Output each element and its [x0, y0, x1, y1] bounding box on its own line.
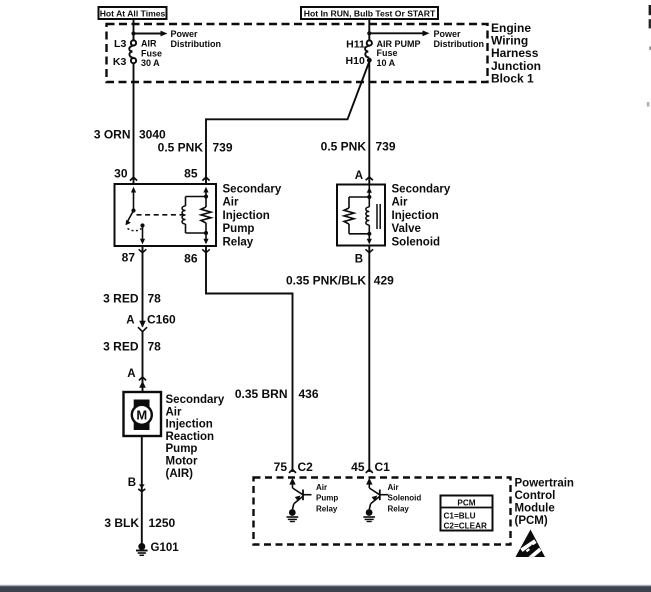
PCM dashed box	[254, 478, 511, 545]
wire branch diagonal from fuse H10 to relay pin 85	[206, 62, 369, 185]
svg-text:436: 436	[299, 387, 319, 401]
PCM legend box	[441, 496, 493, 531]
solenoid box Secondary Air Injection Valve Solenoid	[337, 185, 385, 246]
svg-text:Injection: Injection	[166, 419, 213, 431]
bottom bar	[0, 585, 651, 587]
svg-text:0.35 PNK/BLK: 0.35 PNK/BLK	[286, 274, 366, 288]
svg-text:Motor: Motor	[166, 456, 198, 468]
svg-text:M: M	[136, 408, 147, 423]
svg-text:C1=BLU: C1=BLU	[444, 512, 476, 521]
motor Secondary Air Injection Reaction Pump Motor (AIR)	[124, 392, 162, 436]
svg-text:45: 45	[351, 460, 365, 474]
node junction dot left	[131, 31, 135, 35]
label 3 RED 78 lower	[103, 340, 161, 354]
fuse AIR PUMP Fuse 10 A	[346, 38, 421, 68]
svg-text:1250: 1250	[149, 516, 176, 530]
svg-text:30 A: 30 A	[141, 58, 160, 68]
solenoid pin labels	[355, 170, 363, 265]
ground G101	[136, 542, 179, 555]
right edge artifacts	[649, 5, 651, 15]
svg-text:739: 739	[213, 140, 233, 154]
wire motor B to ground	[141, 436, 143, 544]
svg-text:Solenoid: Solenoid	[392, 237, 441, 249]
svg-text:Air: Air	[316, 483, 327, 492]
svg-text:Distribution: Distribution	[434, 39, 485, 49]
svg-text:Power: Power	[171, 29, 199, 39]
svg-text:Injection: Injection	[392, 210, 439, 222]
svg-text:Control: Control	[515, 490, 556, 502]
svg-text:Air: Air	[166, 406, 183, 418]
svg-text:Secondary: Secondary	[166, 394, 225, 406]
svg-text:B: B	[355, 253, 363, 265]
label 3 ORN 3040	[94, 128, 166, 142]
svg-text:Fuse: Fuse	[377, 48, 398, 58]
fuse AIR Fuse 30 A	[113, 38, 162, 68]
connector chevron solenoid B	[366, 249, 374, 252]
svg-text:87: 87	[122, 251, 136, 265]
label 0.35 BRN 436	[235, 387, 319, 401]
svg-text:C2=CLEAR: C2=CLEAR	[444, 522, 488, 531]
ESD warning triangle	[516, 530, 546, 558]
power distribution arrow right	[369, 29, 484, 49]
svg-text:(AIR): (AIR)	[166, 468, 194, 480]
wire fuse K3 to relay pin 30	[133, 63, 135, 184]
svg-text:Hot In RUN, Bulb Test Or START: Hot In RUN, Bulb Test Or START	[304, 8, 436, 18]
svg-text:0.35 BRN: 0.35 BRN	[235, 387, 288, 401]
svg-text:B: B	[128, 477, 136, 489]
svg-text:C160: C160	[147, 313, 176, 327]
connector chevron pin 86	[202, 249, 210, 252]
label 0.5 PNK 739 right	[321, 139, 396, 153]
wire C160 to motor	[142, 332, 144, 392]
svg-text:78: 78	[148, 292, 162, 306]
label 3 RED 78 upper	[103, 292, 161, 306]
svg-text:Pump: Pump	[223, 223, 255, 235]
wire from Hot In RUN to fuse	[368, 19, 370, 40]
relay coil control dashed line	[137, 214, 185, 216]
label box Hot At All Times	[99, 7, 167, 19]
relay pin labels	[114, 167, 198, 266]
label box Hot In RUN, Bulb Test Or START	[301, 7, 438, 19]
svg-text:3 BLK: 3 BLK	[104, 516, 139, 530]
svg-text:Air: Air	[388, 483, 399, 492]
wire from Hot At All Times to fuse	[133, 19, 135, 40]
transistor Air Solenoid Relay driver	[363, 478, 421, 522]
wire relay 86 to PCM 75 C2	[206, 246, 293, 472]
transistor Air Pump Relay driver	[287, 478, 339, 522]
motor name text	[166, 394, 225, 480]
wire fuse H10 down to solenoid pin A	[368, 61, 370, 185]
motor pin B	[128, 477, 146, 492]
svg-text:L3: L3	[114, 38, 126, 50]
connector chevron pin 30	[130, 177, 137, 180]
relay box Secondary Air Injection Pump Relay	[115, 184, 217, 246]
PCM connector labels 75 C2 45 C1	[274, 460, 391, 474]
label 0.35 PNK/BLK 429	[286, 274, 394, 288]
svg-text:C1: C1	[375, 460, 391, 474]
connector chevron solenoid A	[366, 177, 373, 180]
label 0.5 PNK 739 left	[158, 140, 233, 154]
svg-text:75: 75	[274, 460, 288, 474]
svg-text:Powertrain: Powertrain	[515, 478, 574, 490]
svg-text:Secondary: Secondary	[223, 183, 282, 195]
connector chevron pin 85	[202, 177, 209, 180]
svg-text:A: A	[127, 368, 135, 380]
relay coil	[182, 187, 211, 245]
relay name text	[223, 183, 282, 248]
svg-text:G101: G101	[151, 542, 180, 554]
svg-text:0.5 PNK: 0.5 PNK	[321, 139, 367, 153]
connector chevron pin 87	[139, 249, 147, 252]
svg-text:H11: H11	[346, 38, 365, 50]
svg-text:Pump: Pump	[316, 494, 338, 503]
motor pin A	[127, 368, 146, 388]
svg-text:(PCM): (PCM)	[515, 515, 548, 527]
junction block dashed box	[107, 24, 488, 82]
svg-text:Relay: Relay	[223, 237, 254, 249]
svg-text:Injection: Injection	[223, 210, 270, 222]
solenoid internals	[344, 185, 380, 245]
wire solenoid B down to PCM 45 C1	[368, 246, 370, 473]
svg-text:Solenoid: Solenoid	[388, 494, 422, 503]
svg-text:30: 30	[114, 167, 128, 181]
svg-text:Reaction: Reaction	[166, 431, 215, 443]
svg-text:0.5 PNK: 0.5 PNK	[158, 140, 204, 154]
junction block label	[491, 21, 541, 86]
label 3 BLK 1250	[104, 516, 175, 530]
connector C160	[126, 313, 176, 332]
node junction dot right	[367, 31, 371, 35]
svg-text:PCM: PCM	[457, 498, 475, 507]
svg-text:Distribution: Distribution	[171, 39, 222, 49]
svg-text:Module: Module	[515, 503, 555, 515]
svg-text:86: 86	[184, 252, 198, 266]
svg-text:A: A	[126, 315, 134, 327]
PCM name text	[515, 478, 574, 528]
solenoid name text	[392, 183, 451, 248]
svg-text:AIR: AIR	[141, 39, 157, 49]
power distribution arrow left	[134, 29, 222, 49]
svg-text:Air: Air	[223, 197, 240, 209]
wire relay 87 down to motor	[142, 246, 144, 327]
svg-text:78: 78	[148, 340, 162, 354]
svg-text:Relay: Relay	[388, 504, 410, 513]
svg-text:10 A: 10 A	[377, 58, 396, 68]
svg-text:85: 85	[184, 167, 198, 181]
svg-text:739: 739	[376, 139, 396, 153]
svg-text:Pump: Pump	[166, 443, 198, 455]
svg-text:Valve: Valve	[392, 223, 421, 235]
relay switch	[126, 187, 146, 245]
svg-text:Power: Power	[434, 29, 462, 39]
svg-text:429: 429	[374, 274, 394, 288]
svg-text:Fuse: Fuse	[141, 48, 162, 58]
svg-text:Relay: Relay	[316, 504, 338, 513]
svg-text:3 ORN: 3 ORN	[94, 128, 131, 142]
svg-text:A: A	[355, 170, 363, 182]
svg-text:3 RED: 3 RED	[103, 292, 139, 306]
svg-text:C2: C2	[298, 460, 314, 474]
svg-text:3 RED: 3 RED	[103, 340, 139, 354]
svg-text:Air: Air	[392, 197, 409, 209]
svg-text:Secondary: Secondary	[392, 183, 451, 195]
svg-text:Block 1: Block 1	[491, 72, 534, 86]
svg-text:Hot At All Times: Hot At All Times	[100, 8, 166, 18]
svg-text:H10: H10	[346, 55, 365, 67]
svg-text:K3: K3	[113, 56, 127, 68]
